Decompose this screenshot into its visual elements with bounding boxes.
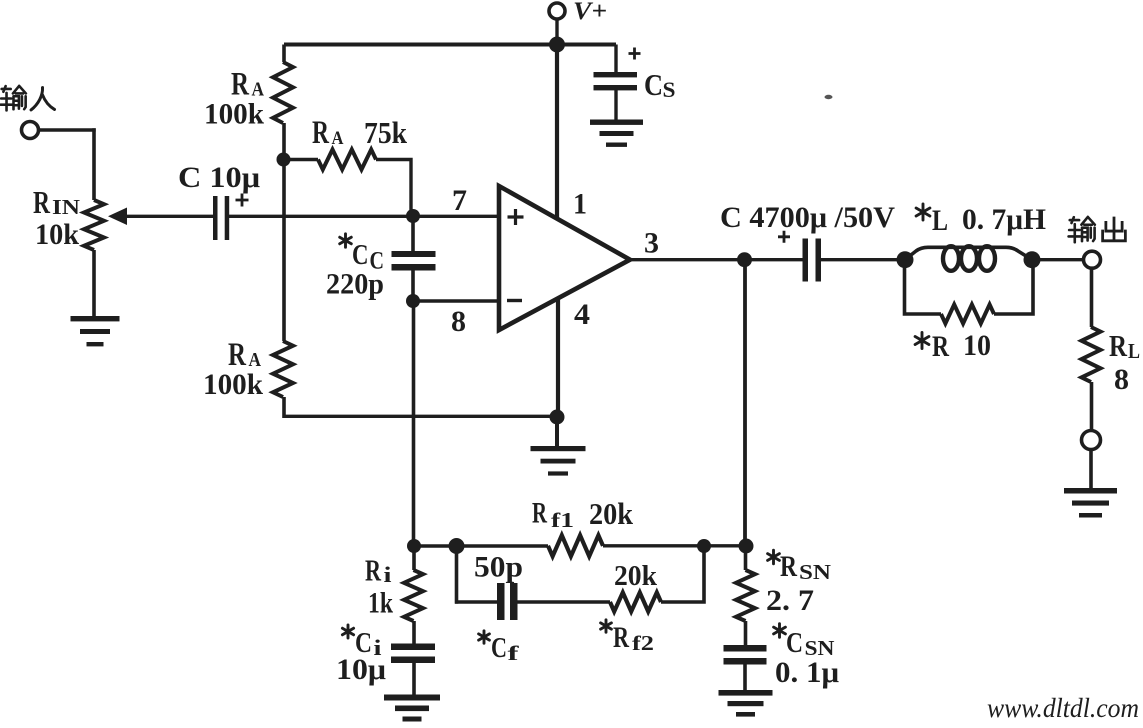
- svg-text:75k: 75k: [364, 115, 408, 150]
- wire input to corner: [39, 128, 96, 131]
- svg-text:10k: 10k: [35, 218, 79, 251]
- wire Rsn top: [744, 546, 748, 570]
- ground RL: [1064, 488, 1117, 494]
- capacitor Ci: [391, 644, 435, 651]
- wire RL top: [1090, 268, 1094, 327]
- op-amp U1: [499, 186, 630, 330]
- wire snubber drop: [743, 260, 747, 546]
- resistor Ri: [404, 570, 423, 621]
- wire cf branch: [455, 600, 497, 603]
- wire C to op-amp +: [229, 215, 499, 218]
- svg-text:8: 8: [451, 305, 466, 338]
- svg-text:R: R: [365, 553, 381, 588]
- svg-text:100k: 100k: [204, 98, 264, 131]
- junction L left: [897, 251, 914, 268]
- capacitor CC: [392, 251, 436, 257]
- wire R10 right: [994, 266, 1035, 316]
- wire RL bottom: [1090, 382, 1094, 431]
- wire rf2 to up: [661, 546, 706, 604]
- svg-text:1k: 1k: [368, 587, 393, 620]
- svg-text:0. 7μH: 0. 7μH: [962, 203, 1046, 236]
- wire CSN to ground: [743, 664, 747, 692]
- svg-text:L: L: [1128, 339, 1140, 363]
- junction fb right: [697, 539, 711, 553]
- junction output node: [737, 252, 752, 267]
- svg-text:R: R: [33, 184, 51, 220]
- wire to op ground: [555, 417, 559, 446]
- ground CSN: [719, 690, 773, 696]
- resistor RA top: [273, 62, 293, 123]
- junction L right: [1024, 251, 1041, 268]
- wire CS to ground: [614, 90, 617, 120]
- pin 4 wire: [556, 295, 560, 417]
- ground Ci: [384, 695, 440, 701]
- junction fb left: [407, 539, 421, 553]
- svg-text:C: C: [644, 67, 663, 102]
- wire pin8: [413, 299, 499, 302]
- terminal input: [22, 122, 39, 139]
- ground op-amp: [531, 446, 586, 451]
- svg-text:A: A: [332, 128, 344, 149]
- svg-text:f: f: [508, 641, 521, 665]
- wire Ri bottom: [412, 621, 416, 644]
- svg-text:f2: f2: [632, 631, 654, 655]
- svg-text:20k: 20k: [589, 496, 634, 531]
- svg-text:C: C: [491, 632, 507, 664]
- pin 1 wire: [555, 45, 559, 220]
- wire CS drop: [614, 45, 617, 73]
- wire RA top stub: [282, 45, 286, 63]
- label + of C: [236, 194, 249, 207]
- wire Rsn bottom: [744, 621, 748, 646]
- terminal RL bottom: [1082, 431, 1101, 450]
- svg-text:0. 1μ: 0. 1μ: [775, 656, 839, 689]
- wire CC bottom: [411, 270, 415, 301]
- svg-text:220p: 220p: [326, 268, 384, 301]
- svg-text:L: L: [932, 204, 948, 237]
- wire fb rail left: [414, 544, 548, 547]
- terminal output: [1084, 251, 1101, 268]
- svg-text:R: R: [780, 550, 797, 583]
- label *R 10: [915, 333, 929, 349]
- inductor L loops: [943, 246, 959, 271]
- wire fb rail right: [603, 544, 746, 547]
- ground under CS: [590, 120, 643, 125]
- wire bottom rail to gnd node: [284, 415, 557, 418]
- resistor R 10: [941, 305, 994, 324]
- resistor RA bottom: [273, 341, 293, 397]
- svg-text:R: R: [613, 621, 629, 654]
- svg-text:1: 1: [573, 188, 587, 221]
- svg-text:2. 7: 2. 7: [766, 584, 814, 617]
- wire top rail: [284, 43, 616, 47]
- wire pot to ground: [92, 250, 96, 316]
- wire cf to rf2: [518, 600, 611, 603]
- junction gnd node: [550, 410, 565, 425]
- svg-text:C: C: [352, 240, 369, 271]
- svg-text:C: C: [786, 627, 803, 659]
- svg-text:3: 3: [644, 227, 659, 260]
- svg-text:SN: SN: [799, 560, 831, 584]
- wire inverting feedback drop: [412, 301, 416, 546]
- svg-text:10μ: 10μ: [336, 653, 386, 686]
- svg-text:7: 7: [452, 184, 467, 217]
- resistor Rf2: [610, 593, 661, 612]
- svg-text:R: R: [532, 497, 547, 530]
- speck: [825, 95, 833, 99]
- svg-text:IN: IN: [52, 195, 80, 219]
- svg-text:10: 10: [963, 329, 991, 362]
- wire L to output: [1040, 258, 1084, 261]
- wire RA to junction: [282, 123, 286, 162]
- label *L 0.7μH: [916, 204, 930, 220]
- wire to RL ground: [1089, 450, 1093, 489]
- wire Ci to ground: [412, 662, 416, 695]
- op-amp + input sign: [508, 209, 524, 225]
- potentiometer arrow: [108, 208, 127, 226]
- resistor RL: [1082, 327, 1101, 382]
- svg-text:R: R: [932, 330, 949, 363]
- wire R10 left drop: [903, 266, 941, 316]
- label *RSN: [768, 550, 780, 564]
- junction top rail / V+: [549, 37, 565, 53]
- capacitor Cf: [497, 583, 505, 620]
- svg-text:C 10μ: C 10μ: [178, 161, 260, 194]
- terminal V+: [549, 3, 565, 19]
- wire arrow to C: [125, 215, 213, 218]
- svg-text:www.dltdl.com: www.dltdl.com: [987, 693, 1139, 723]
- capacitor CS: [594, 72, 638, 77]
- svg-text:i: i: [384, 562, 392, 587]
- capacitor CSN: [724, 645, 767, 652]
- inductor L wire: [905, 247, 1032, 259]
- label *CC: [340, 234, 352, 247]
- label + of C4700: [778, 231, 790, 243]
- label 输出: [1069, 217, 1081, 242]
- svg-text:8: 8: [1114, 363, 1129, 396]
- junction A: [277, 153, 291, 167]
- resistor RA 75k: [318, 150, 376, 170]
- label + of CS: [629, 48, 641, 60]
- resistor Rf1: [548, 535, 603, 556]
- wire CC top: [411, 216, 415, 251]
- svg-text:50p: 50p: [474, 551, 523, 584]
- svg-text:R: R: [312, 115, 330, 151]
- svg-text:S: S: [663, 77, 676, 102]
- label *Cf: [479, 631, 490, 643]
- junction pin8 node: [406, 294, 420, 308]
- wire RA bottom down: [282, 397, 286, 418]
- junction fb cf: [449, 538, 465, 554]
- op-amp - input sign: [507, 299, 522, 302]
- potentiometer RIN zigzag: [84, 200, 104, 250]
- wire RA mid down: [282, 160, 286, 342]
- wire Ri top: [412, 546, 416, 570]
- wire RA75 left: [284, 158, 318, 161]
- label 输入: [1, 86, 12, 110]
- svg-text:R: R: [1109, 328, 1127, 363]
- wire cf branch down: [455, 546, 459, 604]
- wire V+ stub: [555, 19, 558, 40]
- svg-text:100k: 100k: [203, 368, 263, 401]
- resistor RSN: [736, 570, 755, 621]
- wire input down: [92, 128, 96, 200]
- wire RA75 right: [376, 158, 411, 216]
- label *Ci: [342, 625, 353, 638]
- junction fb out: [739, 539, 754, 554]
- capacitor C 10μ: [213, 196, 218, 240]
- label *CSN: [774, 624, 786, 638]
- junction pin7 node: [406, 209, 420, 223]
- wire opamp out: [628, 258, 803, 261]
- wire cap to L: [821, 258, 897, 261]
- label *Rf2: [601, 620, 612, 632]
- svg-text:f1: f1: [551, 508, 574, 532]
- svg-text:4: 4: [574, 298, 590, 331]
- capacitor C 4700μ: [803, 239, 809, 282]
- svg-text:V+: V+: [573, 0, 607, 25]
- svg-text:C 4700μ /50V: C 4700μ /50V: [720, 201, 895, 234]
- svg-text:20k: 20k: [614, 560, 658, 592]
- ground under RIN: [71, 316, 120, 321]
